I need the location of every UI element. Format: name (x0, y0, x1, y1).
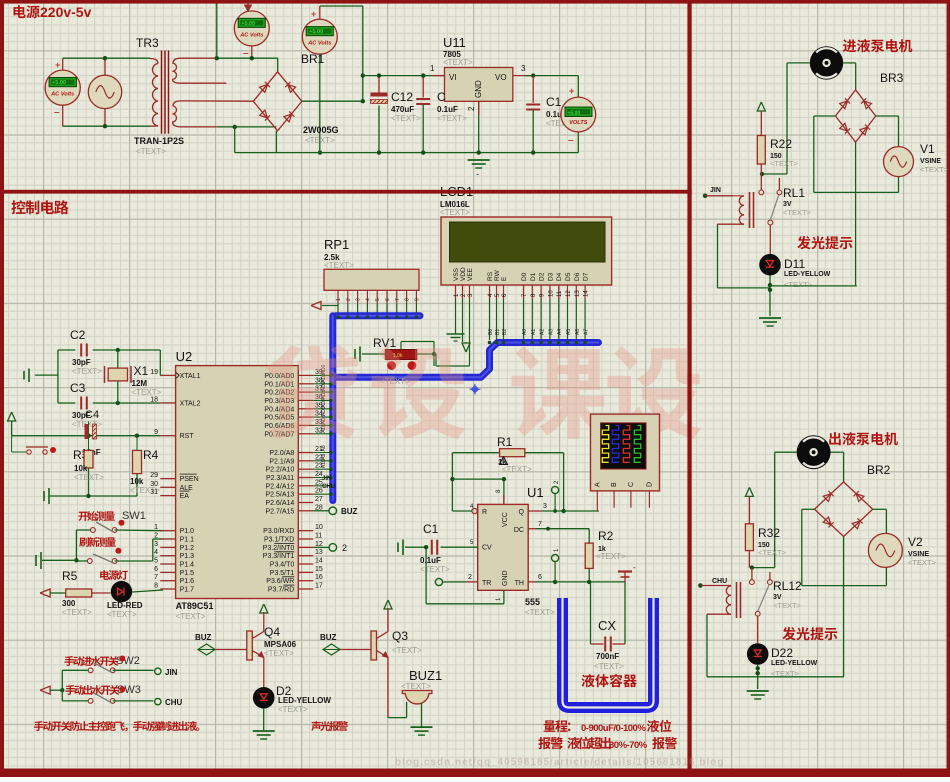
svg-text:8: 8 (405, 298, 411, 301)
svg-text:VSINE: VSINE (908, 551, 929, 558)
svg-text:2W005G: 2W005G (303, 125, 339, 135)
svg-text:U11: U11 (443, 35, 466, 50)
svg-text:A8: A8 (321, 445, 327, 451)
svg-text:A1: A1 (531, 329, 537, 335)
svg-text:E: E (501, 276, 508, 281)
svg-text:TRAN-1P2S: TRAN-1P2S (134, 136, 184, 146)
svg-text:+5.00: +5.00 (568, 111, 581, 117)
svg-text:<TEXT>: <TEXT> (525, 608, 555, 617)
svg-text:6: 6 (154, 566, 158, 573)
svg-text:5: 5 (154, 558, 158, 565)
svg-text:V2: V2 (908, 535, 923, 549)
svg-text:X1: X1 (134, 364, 149, 378)
svg-text:AC Volts: AC Volts (307, 41, 331, 47)
svg-text:JIN: JIN (165, 668, 178, 677)
svg-text:VDD: VDD (460, 267, 467, 281)
svg-text:9: 9 (414, 298, 420, 301)
svg-text:<TEXT>: <TEXT> (72, 367, 102, 376)
svg-text:300: 300 (62, 599, 76, 608)
svg-text:P3.1/TXD: P3.1/TXD (264, 537, 294, 544)
svg-text:A2: A2 (540, 329, 546, 335)
svg-text:R1: R1 (497, 435, 513, 449)
svg-text:<TEXT>: <TEXT> (502, 465, 532, 474)
svg-text:VOLTS: VOLTS (569, 120, 588, 126)
svg-text:BUZ: BUZ (320, 633, 337, 642)
svg-text:P2.1/A9: P2.1/A9 (269, 458, 294, 465)
svg-text:GND: GND (474, 80, 483, 98)
svg-text:RL1: RL1 (783, 186, 805, 200)
svg-text:27: 27 (315, 496, 323, 503)
svg-text:AD4: AD4 (321, 398, 327, 408)
svg-text:0-900uF/0-100%: 0-900uF/0-100% (581, 723, 646, 734)
svg-text:<TEXT>: <TEXT> (443, 58, 473, 67)
svg-text:P1.3: P1.3 (180, 553, 195, 560)
svg-text:<TEXT>: <TEXT> (176, 612, 206, 621)
svg-text:<TEXT>: <TEXT> (783, 208, 812, 217)
svg-text:<TEXT>: <TEXT> (392, 646, 422, 655)
svg-text:<TEXT>: <TEXT> (420, 565, 450, 574)
svg-text:A6: A6 (575, 329, 581, 335)
svg-text:3: 3 (154, 541, 158, 548)
svg-text:<TEXT>: <TEXT> (136, 147, 166, 156)
svg-text:BR3: BR3 (880, 71, 904, 85)
svg-text:R: R (482, 509, 487, 516)
svg-text:VO: VO (495, 73, 507, 82)
svg-text:U2: U2 (176, 349, 193, 364)
svg-text:RL12: RL12 (773, 579, 802, 593)
svg-text:12M: 12M (132, 379, 148, 388)
svg-text:A4: A4 (557, 329, 563, 335)
svg-text:VSS: VSS (453, 267, 460, 281)
svg-text:2: 2 (342, 543, 347, 553)
svg-text:<TEXT>: <TEXT> (74, 473, 104, 482)
svg-text:P1.0: P1.0 (180, 528, 195, 535)
svg-text:Q: Q (519, 509, 525, 516)
svg-text:C1: C1 (423, 522, 439, 536)
svg-text:<TEXT>: <TEXT> (107, 610, 137, 619)
svg-text:<TEXT>: <TEXT> (758, 548, 787, 557)
svg-text:DC: DC (514, 527, 524, 534)
svg-text:C12: C12 (391, 90, 413, 104)
svg-text:RS: RS (487, 271, 494, 281)
svg-text:CHU: CHU (322, 484, 335, 490)
svg-text:<TEXT>: <TEXT> (324, 261, 354, 270)
svg-text:7: 7 (154, 574, 158, 581)
svg-text:A7: A7 (584, 329, 590, 335)
svg-text:CHU: CHU (165, 698, 183, 707)
svg-text:<TEXT>: <TEXT> (594, 662, 624, 671)
svg-text:P3.2/INT0: P3.2/INT0 (263, 545, 295, 552)
svg-text:<TEXT>: <TEXT> (278, 705, 308, 714)
svg-text:P3.0/RXD: P3.0/RXD (263, 528, 294, 535)
svg-text:14: 14 (584, 290, 590, 297)
svg-text:BR1: BR1 (301, 52, 325, 66)
svg-text:D1: D1 (530, 272, 537, 281)
svg-text:BUZ: BUZ (341, 507, 358, 516)
svg-text:P3.7/RD: P3.7/RD (268, 587, 294, 594)
svg-text:LED-YELLOW: LED-YELLOW (278, 696, 331, 705)
svg-text:P2.0/A8: P2.0/A8 (269, 450, 294, 457)
svg-text:Q3: Q3 (392, 629, 408, 643)
svg-text:4: 4 (154, 549, 158, 556)
svg-text:6: 6 (385, 298, 391, 301)
svg-text:P1.6: P1.6 (180, 578, 195, 585)
svg-text:12: 12 (566, 290, 572, 297)
svg-text:7: 7 (538, 521, 542, 528)
svg-text:18: 18 (150, 396, 158, 403)
svg-text:P2.4/A12: P2.4/A12 (265, 483, 294, 490)
svg-text:PSEN: PSEN (180, 476, 199, 483)
svg-text:7: 7 (395, 298, 401, 301)
svg-text:P2.2/A10: P2.2/A10 (265, 467, 294, 474)
svg-text:P1.4: P1.4 (180, 562, 195, 569)
svg-text:VCC: VCC (502, 512, 509, 527)
svg-text:V1: V1 (920, 142, 935, 156)
svg-text:2: 2 (468, 574, 472, 581)
svg-text:3V: 3V (783, 201, 792, 208)
svg-text:LED-YELLOW: LED-YELLOW (771, 660, 818, 667)
svg-text:2: 2 (467, 106, 476, 111)
svg-text:P3.3/INT1: P3.3/INT1 (263, 553, 295, 560)
svg-text:D6: D6 (574, 272, 581, 281)
svg-text:<TEXT>: <TEXT> (305, 136, 335, 145)
svg-text:D2: D2 (539, 272, 546, 281)
svg-text:<TEXT>: <TEXT> (62, 608, 92, 617)
svg-text:<TEXT>: <TEXT> (920, 165, 949, 174)
svg-text:TR: TR (482, 580, 491, 587)
svg-text:–: – (243, 48, 249, 59)
svg-text:AC Volts: AC Volts (50, 92, 74, 98)
svg-text:P2.5/A13: P2.5/A13 (265, 492, 294, 499)
svg-text:SW2: SW2 (116, 655, 140, 667)
svg-text:6: 6 (538, 574, 542, 581)
svg-text:P1.1: P1.1 (180, 537, 195, 544)
svg-text:BR2: BR2 (867, 463, 891, 477)
svg-text:P1.5: P1.5 (180, 570, 195, 577)
svg-text:17: 17 (315, 583, 323, 590)
svg-text:<TEXT>: <TEXT> (264, 649, 294, 658)
svg-text:<TEXT>: <TEXT> (440, 208, 470, 217)
svg-text:JIN: JIN (710, 187, 721, 194)
svg-text:30pF: 30pF (72, 358, 91, 367)
svg-text:8: 8 (154, 583, 158, 590)
svg-text:AC Volts: AC Volts (239, 32, 263, 38)
svg-text:1: 1 (154, 524, 158, 531)
svg-text:XTAL2: XTAL2 (180, 400, 201, 407)
svg-text:MPSA06: MPSA06 (264, 640, 297, 649)
svg-text:<TEXT>: <TEXT> (437, 114, 467, 123)
svg-text:D4: D4 (556, 272, 563, 281)
svg-text:BUZ: BUZ (195, 633, 212, 642)
svg-text:3: 3 (543, 503, 547, 510)
svg-text:RST: RST (180, 433, 195, 440)
svg-text:A: A (594, 482, 601, 487)
svg-text:RP1: RP1 (324, 237, 349, 252)
svg-text:C4: C4 (85, 409, 99, 421)
svg-text:10: 10 (548, 290, 554, 297)
svg-text:D5: D5 (565, 272, 572, 281)
svg-text:P3.5/T1: P3.5/T1 (270, 570, 295, 577)
svg-text:+5.00: +5.00 (241, 21, 255, 27)
svg-text:blog.csdn.net/qq_40598185/arti: blog.csdn.net/qq_40598185/article/detail… (395, 757, 724, 768)
svg-text:-: - (476, 169, 479, 179)
svg-text:D7: D7 (583, 272, 590, 281)
svg-text:16: 16 (315, 574, 323, 581)
svg-text:3: 3 (356, 298, 362, 301)
svg-text:3V: 3V (773, 594, 782, 601)
svg-text:XTAL1: XTAL1 (180, 373, 201, 380)
svg-text:Q4: Q4 (264, 625, 280, 639)
svg-text:–: – (54, 107, 60, 118)
svg-text:JIN: JIN (322, 476, 331, 482)
svg-text:BUZ1: BUZ1 (409, 668, 442, 683)
svg-text:D3: D3 (547, 272, 554, 281)
svg-text:AT89C51: AT89C51 (176, 601, 214, 611)
svg-text:P3.6/WR: P3.6/WR (266, 578, 294, 585)
svg-text:–: – (568, 135, 574, 146)
svg-text:4: 4 (365, 298, 371, 301)
svg-text:10: 10 (315, 524, 323, 531)
svg-text:A9: A9 (321, 453, 327, 459)
svg-text:D: D (646, 482, 653, 487)
svg-text:D0: D0 (521, 272, 528, 281)
svg-text:TR3: TR3 (136, 36, 159, 50)
svg-text:R4: R4 (143, 448, 159, 462)
svg-text:0.1uF: 0.1uF (437, 105, 458, 114)
svg-text:220v-5v: 220v-5v (40, 4, 92, 20)
svg-text:470uF: 470uF (391, 105, 414, 114)
svg-text:<TEXT>: <TEXT> (773, 601, 802, 610)
svg-text:-: - (633, 563, 636, 572)
svg-text:555: 555 (525, 597, 540, 607)
svg-text:+5.00: +5.00 (309, 29, 323, 35)
svg-text:P1.2: P1.2 (180, 545, 195, 552)
svg-text:<TEXT>: <TEXT> (391, 114, 421, 123)
svg-text:A0: A0 (522, 329, 528, 335)
svg-text:+5.00: +5.00 (52, 80, 66, 86)
svg-text:A5: A5 (566, 329, 572, 335)
svg-text:EA: EA (180, 493, 190, 500)
svg-text:10k: 10k (130, 477, 144, 486)
svg-text:CX: CX (598, 618, 616, 633)
svg-text:D11: D11 (784, 257, 805, 271)
svg-text:P2.7/A15: P2.7/A15 (265, 508, 294, 515)
svg-text:19: 19 (150, 369, 158, 376)
svg-text:LED-RED: LED-RED (107, 601, 143, 610)
svg-text:LED-YELLOW: LED-YELLOW (784, 271, 831, 278)
svg-text:700nF: 700nF (596, 652, 619, 661)
svg-text:0.1u: 0.1u (546, 110, 562, 119)
svg-text:R32: R32 (758, 526, 780, 540)
svg-text:B1: B1 (495, 329, 501, 335)
svg-text:C: C (437, 90, 446, 104)
svg-text:<TEXT>: <TEXT> (770, 159, 799, 168)
svg-text:+: + (311, 9, 316, 19)
svg-text:C1: C1 (546, 95, 562, 109)
svg-text:VI: VI (449, 73, 457, 82)
svg-text:TH: TH (515, 580, 524, 587)
svg-text:3: 3 (521, 64, 526, 73)
svg-text:11: 11 (315, 533, 322, 540)
svg-text:5: 5 (375, 298, 381, 301)
svg-text:C2: C2 (70, 328, 86, 342)
svg-text:9: 9 (154, 429, 158, 436)
svg-text:P1.7: P1.7 (180, 587, 195, 594)
svg-text:C: C (628, 482, 635, 487)
svg-text:CV: CV (482, 545, 492, 552)
svg-text:GND: GND (502, 570, 509, 586)
svg-text:CHU: CHU (712, 578, 727, 585)
svg-text:A10: A10 (321, 459, 327, 468)
svg-text:R2: R2 (598, 529, 614, 543)
svg-text:<TEXT>: <TEXT> (401, 682, 431, 691)
svg-text:11: 11 (557, 290, 563, 297)
svg-text:14: 14 (315, 558, 323, 565)
svg-text:VEE: VEE (467, 267, 474, 281)
svg-text:30%-70%: 30%-70% (609, 740, 648, 751)
svg-text:AD5: AD5 (321, 406, 327, 416)
svg-text:A3: A3 (548, 329, 554, 335)
svg-text:R22: R22 (770, 137, 792, 151)
svg-text:U1: U1 (527, 485, 544, 500)
svg-text:+: + (55, 60, 60, 70)
svg-text:RW: RW (494, 269, 501, 281)
svg-text:29: 29 (150, 472, 158, 479)
svg-text:B: B (611, 482, 618, 487)
svg-text:10k: 10k (74, 464, 88, 473)
svg-text:VSINE: VSINE (920, 158, 941, 165)
svg-text:30: 30 (150, 481, 158, 488)
svg-text:P2.3/A11: P2.3/A11 (266, 475, 294, 482)
svg-text:31: 31 (150, 489, 158, 496)
svg-text:13: 13 (315, 549, 323, 556)
svg-text:C3: C3 (70, 381, 86, 395)
svg-text:1: 1 (336, 298, 342, 301)
svg-text:<TEXT>: <TEXT> (596, 552, 626, 561)
svg-text:<TEXT>: <TEXT> (784, 280, 813, 289)
svg-text:P2.6/A14: P2.6/A14 (265, 500, 294, 507)
svg-text:B2: B2 (502, 329, 508, 335)
svg-text:0.1uF: 0.1uF (420, 556, 441, 565)
svg-text:D22: D22 (771, 646, 793, 660)
svg-text:R5: R5 (62, 569, 78, 583)
svg-text:B0: B0 (488, 329, 494, 335)
svg-text:2: 2 (154, 533, 158, 540)
svg-text:+: + (569, 86, 574, 96)
svg-text:<TEXT>: <TEXT> (908, 558, 937, 567)
svg-text:1: 1 (430, 64, 435, 73)
svg-text:2: 2 (346, 298, 352, 301)
svg-text:P3.4/T0: P3.4/T0 (270, 562, 295, 569)
svg-text:13: 13 (575, 290, 581, 297)
svg-text:SW1: SW1 (122, 510, 146, 522)
svg-text:15: 15 (315, 566, 323, 573)
